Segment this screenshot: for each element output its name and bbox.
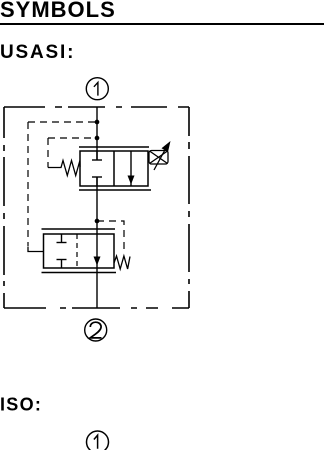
svg-text:ISO:: ISO:: [0, 395, 42, 415]
svg-text:SYMBOLS: SYMBOLS: [0, 0, 116, 22]
svg-text:USASI:: USASI:: [0, 42, 75, 63]
